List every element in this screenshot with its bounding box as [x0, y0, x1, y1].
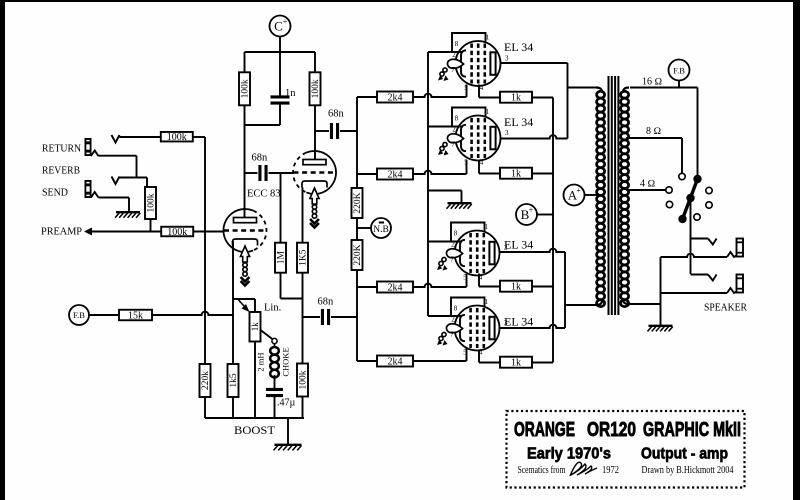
svg-text:100k: 100k — [167, 227, 187, 238]
svg-text:2k4: 2k4 — [388, 357, 403, 368]
svg-text:68n: 68n — [318, 297, 335, 308]
svg-text:68n: 68n — [252, 153, 269, 164]
svg-text:7: 7 — [451, 141, 455, 149]
svg-text:1k: 1k — [511, 358, 521, 369]
svg-text:1k5: 1k5 — [229, 373, 239, 388]
svg-text:2: 2 — [452, 126, 456, 134]
svg-text:4: 4 — [480, 159, 484, 167]
svg-text:5: 5 — [463, 274, 467, 282]
svg-text:4: 4 — [480, 84, 484, 92]
svg-text:7: 7 — [450, 331, 454, 339]
svg-text:BOOST: BOOST — [234, 425, 275, 437]
svg-text:5: 5 — [464, 159, 468, 167]
svg-text:Lin.: Lin. — [264, 303, 281, 314]
svg-text:1: 1 — [485, 223, 489, 231]
svg-text:8: 8 — [455, 115, 459, 123]
svg-text:8: 8 — [455, 40, 459, 48]
svg-text:3: 3 — [505, 129, 509, 137]
svg-text:PREAMP: PREAMP — [41, 227, 82, 238]
svg-text:EL 34: EL 34 — [504, 115, 533, 129]
svg-text:8 Ω: 8 Ω — [646, 126, 662, 137]
svg-text:CHOKE: CHOKE — [281, 347, 291, 376]
svg-text:2k4: 2k4 — [388, 170, 403, 181]
svg-text:ORANGE: ORANGE — [514, 419, 575, 441]
svg-text:5: 5 — [463, 349, 467, 357]
svg-text:Drawn by B.Hickmott 2004: Drawn by B.Hickmott 2004 — [642, 465, 734, 476]
svg-text:4 Ω: 4 Ω — [640, 179, 656, 190]
svg-text:7: 7 — [450, 256, 454, 264]
svg-text:2: 2 — [451, 241, 455, 249]
svg-text:2: 2 — [452, 51, 456, 59]
svg-text:N.B: N.B — [373, 225, 389, 235]
svg-text:1n: 1n — [285, 88, 296, 99]
svg-text:ECC 83: ECC 83 — [247, 189, 281, 200]
svg-text:EL 34: EL 34 — [504, 315, 533, 329]
svg-text:+: + — [529, 206, 534, 215]
svg-text:EL 34: EL 34 — [504, 238, 533, 252]
svg-text:100k: 100k — [241, 79, 251, 98]
svg-text:1: 1 — [486, 34, 490, 42]
svg-text:.47µ: .47µ — [277, 398, 296, 409]
svg-text:OR120: OR120 — [587, 419, 636, 441]
svg-text:Scematics from: Scematics from — [518, 465, 566, 476]
svg-text:1: 1 — [485, 298, 489, 306]
svg-text:1k: 1k — [250, 322, 260, 332]
svg-text:1k: 1k — [511, 93, 521, 104]
svg-text:1: 1 — [486, 108, 490, 116]
svg-text:220k: 220k — [201, 371, 211, 390]
svg-text:220K: 220K — [353, 192, 363, 213]
svg-text:4: 4 — [479, 274, 483, 282]
svg-text:EL 34: EL 34 — [504, 40, 533, 54]
svg-text:C: C — [274, 19, 283, 34]
svg-text:15k: 15k — [128, 311, 143, 322]
svg-text:REVERB: REVERB — [42, 166, 80, 177]
svg-text:1K5: 1K5 — [299, 249, 309, 266]
svg-text:2 mH: 2 mH — [256, 352, 266, 371]
svg-text:68n: 68n — [328, 109, 345, 120]
svg-text:220K: 220K — [353, 244, 363, 265]
svg-text:SEND: SEND — [42, 188, 68, 199]
svg-text:4: 4 — [479, 349, 483, 357]
svg-text:100k: 100k — [299, 370, 309, 389]
svg-text:2k4: 2k4 — [388, 93, 403, 104]
svg-text:2: 2 — [451, 316, 455, 324]
svg-text:SPEAKER: SPEAKER — [704, 303, 747, 314]
svg-text:100k: 100k — [311, 79, 321, 98]
svg-text:8: 8 — [454, 230, 458, 238]
svg-text:16 Ω: 16 Ω — [642, 77, 663, 88]
svg-text:2k4: 2k4 — [388, 283, 403, 294]
svg-text:1k: 1k — [511, 282, 521, 293]
svg-text:7: 7 — [451, 66, 455, 74]
svg-text:F.B: F.B — [673, 66, 685, 76]
svg-text:Output - amp: Output - amp — [641, 446, 728, 463]
svg-text:Early 1970's: Early 1970's — [527, 446, 611, 463]
svg-text:100k: 100k — [167, 132, 187, 143]
svg-text:1k: 1k — [511, 169, 521, 180]
svg-text:F.B: F.B — [73, 310, 85, 320]
svg-text:5: 5 — [464, 84, 468, 92]
svg-text:GRAPHIC MkII: GRAPHIC MkII — [643, 419, 741, 441]
svg-text:RETURN: RETURN — [42, 144, 81, 155]
svg-text:3: 3 — [505, 55, 509, 63]
svg-text:+: + — [576, 186, 581, 195]
svg-text:100k: 100k — [147, 193, 157, 212]
svg-text:1972: 1972 — [602, 465, 619, 476]
svg-text:1M: 1M — [277, 251, 287, 265]
svg-text:+: + — [283, 17, 288, 26]
svg-text:8: 8 — [454, 305, 458, 313]
